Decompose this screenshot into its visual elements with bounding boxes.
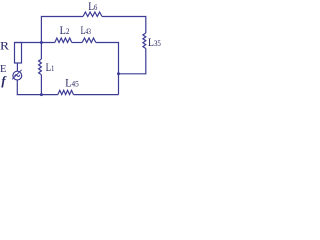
source E circle — [13, 71, 22, 80]
inductor L35 — [143, 33, 146, 49]
node junction left middle — [40, 41, 43, 44]
source E diagonal arrow — [12, 70, 22, 80]
svg-text:L6: L6 — [88, 0, 97, 13]
wire source to bottom — [17, 80, 58, 95]
svg-text:f: f — [1, 74, 7, 88]
svg-text:L35: L35 — [148, 35, 161, 49]
wire bottom right segment — [74, 94, 119, 96]
inductor L6 — [83, 12, 102, 17]
wire top right segment — [102, 17, 146, 34]
source E sine — [15, 75, 20, 77]
node junction left bottom — [40, 93, 43, 96]
wire L1 branch lower — [40, 75, 42, 95]
svg-text:L45: L45 — [65, 76, 79, 90]
resistor R — [15, 43, 22, 64]
inductor L1 — [39, 59, 42, 75]
node junction right — [117, 72, 120, 75]
wire middle branch right with corner down — [96, 43, 119, 95]
inductor L43 — [82, 38, 96, 43]
svg-text:L1: L1 — [46, 60, 55, 74]
wire L1 branch upper — [40, 43, 42, 60]
wire top left segment — [41, 17, 83, 43]
inductor L45 — [58, 90, 74, 94]
svg-text:L2: L2 — [60, 23, 70, 37]
wire R bottom to source — [16, 63, 18, 71]
wire right vertical below L35 — [119, 49, 146, 74]
wire middle branch left — [15, 42, 55, 44]
svg-text:L43: L43 — [81, 23, 91, 37]
inductor L2 — [55, 38, 72, 43]
wire between L2 and L43 — [72, 42, 82, 44]
svg-text:R: R — [0, 39, 9, 53]
